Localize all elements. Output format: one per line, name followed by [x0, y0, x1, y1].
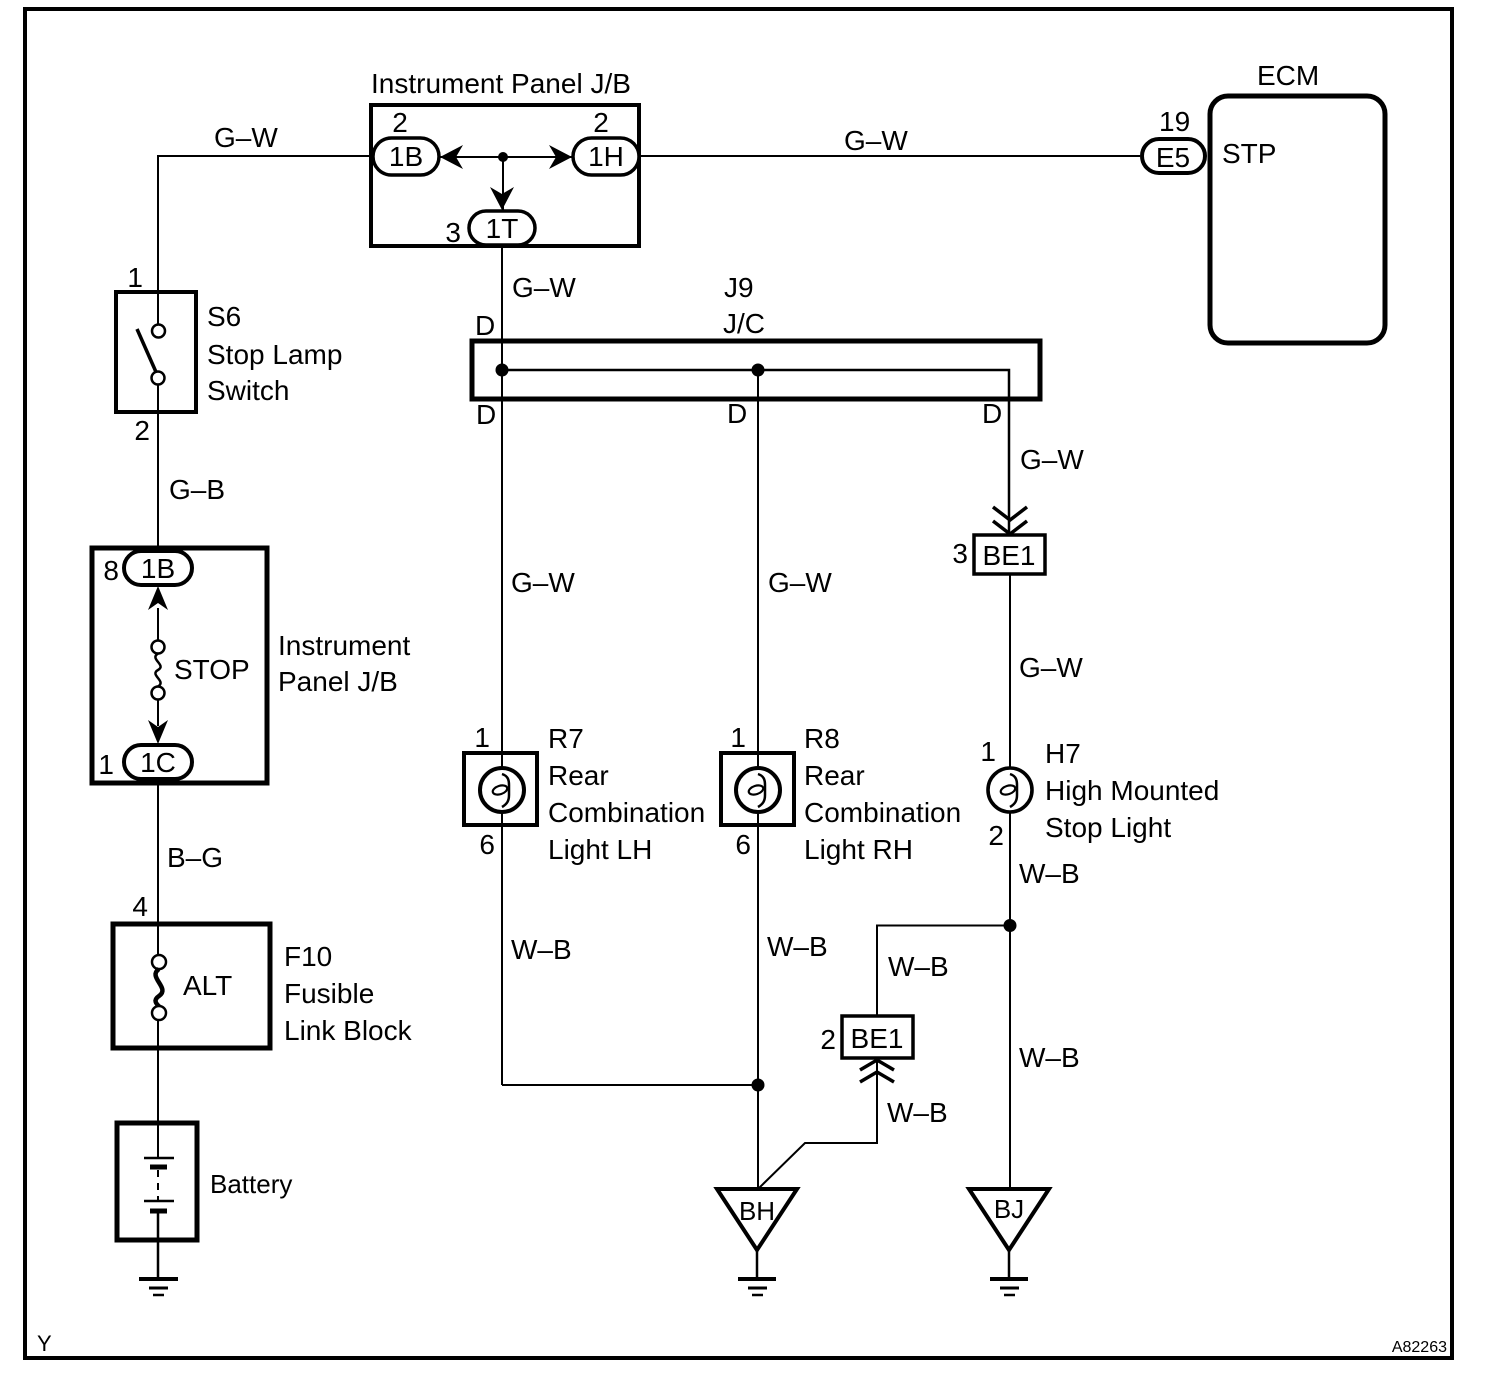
svg-text:Combination: Combination — [804, 797, 961, 828]
wire middle column to R8 and BH — [757, 370, 759, 1189]
wire BE1 to H7 — [1009, 574, 1011, 770]
svg-text:F10: F10 — [284, 941, 332, 972]
svg-text:W–B: W–B — [767, 931, 828, 962]
svg-text:E5: E5 — [1156, 142, 1190, 173]
svg-text:R7: R7 — [548, 723, 584, 754]
ground triangle BH — [717, 1189, 797, 1250]
junction dot middle on bus — [752, 364, 765, 377]
svg-text:BE1: BE1 — [851, 1023, 904, 1054]
svg-text:8: 8 — [103, 555, 119, 586]
branch wire to BE1 pin2 — [877, 926, 1010, 1017]
svg-text:Instrument: Instrument — [278, 630, 410, 661]
wire R7 col to junction — [502, 1084, 758, 1086]
high mounted stop light H7 lamp — [988, 768, 1032, 812]
connector 1T — [469, 211, 535, 245]
svg-text:G–W: G–W — [1019, 652, 1083, 683]
svg-text:STOP: STOP — [174, 654, 250, 685]
fusible link ALT bottom terminal — [152, 1006, 166, 1020]
battery plate short 1 — [150, 1165, 167, 1170]
S6 top contact — [152, 325, 165, 338]
wire S6 to lower J/B (G-B) — [157, 384, 159, 551]
Instrument Panel J/B (lower) box — [92, 548, 267, 783]
svg-text:1T: 1T — [486, 213, 519, 244]
svg-text:1B: 1B — [389, 141, 423, 172]
svg-text:2: 2 — [593, 107, 609, 138]
svg-text:1: 1 — [980, 736, 996, 767]
Instrument Panel J/B (upper) box — [371, 105, 639, 246]
svg-text:1: 1 — [474, 722, 490, 753]
battery plate long 2 — [144, 1200, 174, 1203]
svg-text:B–G: B–G — [167, 842, 223, 873]
svg-text:1: 1 — [98, 749, 114, 780]
svg-text:Rear: Rear — [548, 760, 609, 791]
svg-text:Stop Lamp: Stop Lamp — [207, 339, 342, 370]
svg-text:R8: R8 — [804, 723, 840, 754]
svg-text:Light LH: Light LH — [548, 834, 652, 865]
bus wire inside J9 — [502, 370, 1009, 535]
arrow into 1H — [549, 145, 572, 169]
svg-text:1H: 1H — [588, 141, 624, 172]
R7 lamp — [480, 768, 524, 812]
connector 1B lower — [124, 551, 192, 585]
svg-text:6: 6 — [735, 829, 751, 860]
ground triangle BJ — [969, 1189, 1049, 1250]
svg-text:Link Block: Link Block — [284, 1015, 413, 1046]
svg-text:3: 3 — [952, 538, 968, 569]
svg-text:2: 2 — [988, 820, 1004, 851]
S6 wire stubs inside — [157, 292, 159, 324]
svg-text:3: 3 — [445, 217, 461, 248]
svg-text:2: 2 — [820, 1024, 836, 1055]
S6 bottom contact — [152, 372, 165, 385]
rear combination light LH R7 box — [464, 753, 537, 825]
S6 lever — [137, 329, 156, 372]
svg-text:W–B: W–B — [1019, 1042, 1080, 1073]
svg-text:D: D — [982, 398, 1002, 429]
wire 1C to F10 (B-G) — [157, 783, 159, 956]
svg-text:1: 1 — [127, 262, 143, 293]
svg-text:W–B: W–B — [1019, 858, 1080, 889]
connector 1B — [373, 138, 439, 175]
svg-text:G–W: G–W — [214, 122, 278, 153]
svg-text:Instrument Panel J/B: Instrument Panel J/B — [371, 68, 631, 99]
svg-text:BE1: BE1 — [983, 540, 1036, 571]
battery plate short 2 — [150, 1209, 167, 1214]
ECM box — [1210, 96, 1385, 343]
wire 1B to 1H inside J/B — [439, 156, 573, 158]
arrow into 1B — [440, 145, 463, 169]
svg-text:G–W: G–W — [1020, 444, 1084, 475]
junction dot H7 column — [1004, 919, 1017, 932]
connector BE1 lower — [842, 1016, 913, 1058]
svg-text:Combination: Combination — [548, 797, 705, 828]
svg-text:ECM: ECM — [1257, 60, 1319, 91]
svg-text:G–W: G–W — [844, 125, 908, 156]
svg-text:1: 1 — [730, 722, 746, 753]
svg-text:W–B: W–B — [888, 951, 949, 982]
svg-text:Panel J/B: Panel J/B — [278, 666, 398, 697]
svg-text:High Mounted: High Mounted — [1045, 775, 1219, 806]
fusible link block F10 box — [113, 924, 270, 1048]
svg-text:Rear: Rear — [804, 760, 865, 791]
chevrons into BE1 pin3 — [993, 507, 1027, 534]
arrow up to 1B — [148, 586, 168, 610]
chevrons below BE1 pin2 — [860, 1060, 894, 1082]
svg-text:BH: BH — [739, 1196, 775, 1226]
wire BJ to ground — [1008, 1250, 1011, 1278]
arrow down to 1C — [148, 720, 168, 744]
svg-text:1C: 1C — [140, 747, 176, 778]
stop lamp switch S6 box — [116, 292, 196, 412]
wire battery to ground — [157, 1211, 160, 1278]
svg-text:W–B: W–B — [887, 1097, 948, 1128]
wire BE1 pin2 down to BH — [759, 1058, 877, 1188]
svg-text:Y: Y — [37, 1331, 52, 1356]
svg-text:J/C: J/C — [723, 308, 765, 339]
fuse STOP bottom terminal — [152, 687, 165, 700]
connector E5 — [1142, 139, 1205, 173]
rear combination light RH R8 box — [721, 753, 794, 825]
svg-text:G–B: G–B — [169, 474, 225, 505]
svg-text:H7: H7 — [1045, 738, 1081, 769]
svg-text:D: D — [727, 398, 747, 429]
battery box — [117, 1123, 197, 1240]
svg-text:J9: J9 — [724, 272, 754, 303]
svg-text:STP: STP — [1222, 138, 1276, 169]
fusible link ALT top terminal — [152, 955, 166, 969]
svg-text:D: D — [475, 310, 495, 341]
wire BH to ground — [756, 1250, 759, 1278]
wire H7 to BJ — [1009, 812, 1011, 1189]
fuse STOP top terminal — [152, 641, 165, 654]
svg-text:ALT: ALT — [183, 970, 232, 1001]
svg-text:Fusible: Fusible — [284, 978, 374, 1009]
svg-text:G–W: G–W — [768, 567, 832, 598]
svg-text:19: 19 — [1159, 106, 1190, 137]
connector 1H — [573, 138, 639, 175]
wire 1H to ECM E5 (G-W) — [639, 155, 1140, 157]
svg-text:Light RH: Light RH — [804, 834, 913, 865]
connector BE1 upper — [974, 535, 1045, 574]
svg-text:G–W: G–W — [511, 567, 575, 598]
ground BH — [738, 1279, 776, 1295]
svg-text:2: 2 — [134, 415, 150, 446]
svg-text:1B: 1B — [141, 553, 175, 584]
wire S6 to 1B (G-W) — [158, 156, 373, 292]
wire 1T through bar to R7 — [501, 245, 503, 1085]
svg-text:G–W: G–W — [512, 272, 576, 303]
R8 lamp — [736, 768, 780, 812]
svg-text:4: 4 — [132, 891, 148, 922]
wire junction dot inside J/B — [498, 152, 508, 162]
svg-text:A82263: A82263 — [1392, 1339, 1447, 1356]
battery plate long 1 — [144, 1157, 174, 1160]
svg-text:Switch: Switch — [207, 375, 289, 406]
wire arrow to fuse — [157, 608, 159, 641]
junction dot left on bus — [496, 364, 509, 377]
wire dot to 1T — [502, 157, 504, 212]
wire fuse to arrow — [157, 699, 159, 726]
ground battery — [139, 1279, 178, 1295]
connector 1C — [124, 745, 192, 779]
arrow into 1T — [490, 187, 514, 210]
wire F10 to battery — [157, 1020, 159, 1158]
svg-text:S6: S6 — [207, 301, 241, 332]
junction dot R8 column — [752, 1079, 765, 1092]
battery dashed middle — [157, 1170, 159, 1200]
svg-text:6: 6 — [479, 829, 495, 860]
fuse STOP element — [155, 654, 160, 687]
svg-text:D: D — [476, 399, 496, 430]
svg-text:2: 2 — [392, 107, 408, 138]
fusible link ALT element — [156, 969, 163, 1013]
svg-text:W–B: W–B — [511, 934, 572, 965]
svg-text:BJ: BJ — [994, 1194, 1024, 1224]
svg-text:Stop Light: Stop Light — [1045, 812, 1171, 843]
junction block J9 bar — [472, 341, 1040, 399]
ground BJ — [990, 1279, 1028, 1295]
svg-text:Battery: Battery — [210, 1169, 292, 1199]
